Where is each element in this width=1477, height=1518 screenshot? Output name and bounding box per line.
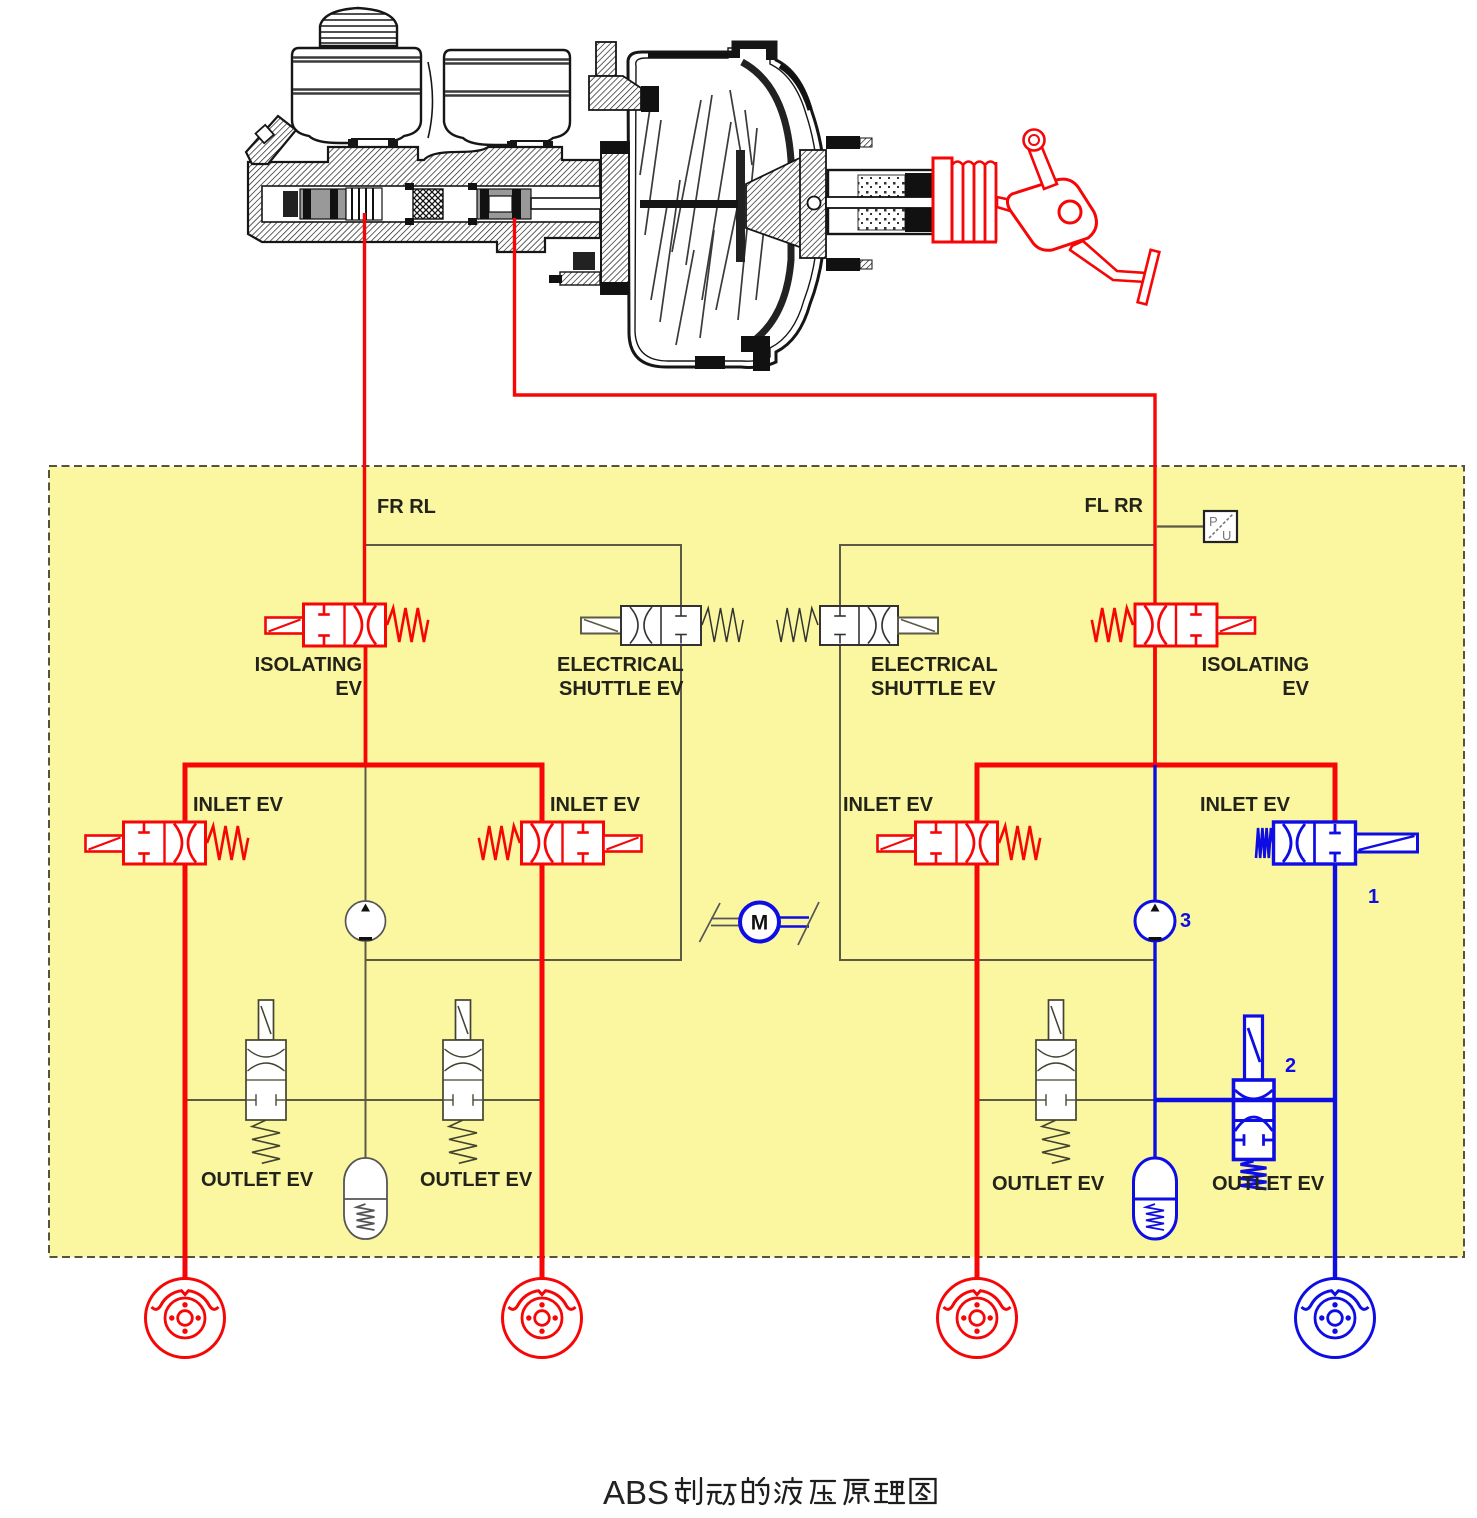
- wheel brake at 1335,1318: [1296, 1279, 1375, 1358]
- valve: OUTLET EV at x=463: [443, 1000, 483, 1163]
- wheel brake at 977,1318: [938, 1279, 1017, 1358]
- pedal foot plate: [1138, 250, 1160, 305]
- valve: ISOLATING EV (right, red): [1092, 604, 1255, 646]
- HCU yellow block background: [49, 467, 1464, 1257]
- wire: left pump branch: [365, 765, 367, 1158]
- lower mounting bolt: [573, 252, 595, 270]
- wire: master cylinder port 1 to FR RL circuit: [363, 213, 366, 604]
- valve: INLET EV at x=542: [479, 822, 642, 864]
- valve: INLET EV (blue, item 1 branch): [1256, 822, 1418, 864]
- check valve fitting: [589, 42, 659, 112]
- wire: left outlet manifold: [185, 1099, 542, 1101]
- wire: right inlet manifold (thick red): [977, 765, 1335, 1278]
- svg-text:SHUTTLE EV: SHUTTLE EV: [559, 678, 684, 700]
- svg-text:2: 2: [1285, 1055, 1296, 1077]
- valve: INLET EV at x=185: [86, 822, 249, 864]
- wire: blue outlet manifold: [1155, 1098, 1335, 1102]
- pedal bellows boot: [933, 158, 997, 242]
- secondary piston: [477, 189, 531, 219]
- wire: FR RL feed through isolating valve to manifold: [364, 646, 368, 765]
- caption glyph: [676, 1478, 701, 1504]
- svg-text:INLET EV: INLET EV: [193, 794, 284, 816]
- master cylinder body (hatched cross-section): [248, 147, 600, 252]
- svg-text:INLET EV: INLET EV: [550, 794, 641, 816]
- caption glyph: [708, 1485, 736, 1504]
- accumulator at x=1155: [1134, 1158, 1177, 1239]
- vacuum booster shell: [628, 42, 826, 367]
- valve: OUTLET EV (blue, item 2): [1234, 1016, 1275, 1189]
- svg-text:INLET EV: INLET EV: [843, 794, 934, 816]
- pedal lower arm: [1070, 241, 1146, 282]
- wire: right shuttle loop: [840, 545, 1155, 606]
- wheel brake at 542,1318: [503, 1279, 582, 1358]
- svg-text:ELECTRICAL: ELECTRICAL: [871, 654, 998, 676]
- accumulator at x=365.5: [344, 1158, 387, 1239]
- svg-text:INLET EV: INLET EV: [1200, 794, 1291, 816]
- wire: right outlet manifold gray part: [977, 1099, 1155, 1101]
- booster bottom flange feet: [741, 336, 770, 371]
- booster internal rods: [640, 90, 766, 345]
- mounting flange arm: [246, 116, 296, 164]
- svg-text:FR RL: FR RL: [377, 496, 436, 518]
- bore left end plug: [283, 191, 298, 217]
- rear housing + output tube: [800, 150, 826, 258]
- svg-text:OUTLET EV: OUTLET EV: [201, 1169, 314, 1191]
- svg-text:ABS: ABS: [603, 1474, 669, 1511]
- svg-text:OUTLET EV: OUTLET EV: [1212, 1173, 1325, 1195]
- wire: blue pump 3 branch: [1153, 765, 1156, 1157]
- reservoir necks and grommets: [348, 139, 553, 155]
- svg-text:ELECTRICAL: ELECTRICAL: [557, 654, 684, 676]
- pump at 365.5,921: [346, 901, 386, 941]
- svg-text:SHUTTLE EV: SHUTTLE EV: [871, 678, 996, 700]
- wire: left inlet manifold (thick red): [185, 765, 542, 1278]
- valve: OUTLET EV at x=266: [246, 1000, 286, 1163]
- svg-text:EV: EV: [335, 678, 362, 700]
- svg-text:FL RR: FL RR: [1084, 495, 1143, 517]
- booster diaphragm band: [742, 62, 791, 346]
- valve: ISOLATING EV (left, red): [266, 604, 429, 646]
- brake fluid reservoirs: [292, 48, 570, 145]
- wire: blue wheel branch: [1333, 864, 1337, 1278]
- svg-text:OUTLET EV: OUTLET EV: [420, 1169, 533, 1191]
- valve: ELECTRICAL SHUTTLE EV (left, gray): [581, 606, 743, 645]
- valve: INLET EV at x=977: [878, 822, 1041, 864]
- caption glyph: [845, 1480, 869, 1504]
- valve: ELECTRICAL SHUTTLE EV (right, gray): [777, 606, 938, 645]
- caption glyph: [811, 1481, 835, 1503]
- svg-text:M: M: [751, 912, 769, 935]
- svg-text:3: 3: [1180, 910, 1191, 932]
- wheel brake at 185,1318: [146, 1279, 225, 1358]
- caption glyph: [875, 1482, 904, 1503]
- pedal pivot block: [1007, 179, 1096, 250]
- svg-text:P: P: [1209, 514, 1218, 529]
- booster top seam elbow (dark): [728, 42, 776, 60]
- pedal pushrod: [997, 197, 1043, 220]
- svg-text:EV: EV: [1282, 678, 1309, 700]
- pump at 1155,921: [1135, 901, 1175, 941]
- booster top rim shading: [648, 53, 728, 58]
- caption glyph: [776, 1478, 802, 1504]
- svg-text:ISOLATING: ISOLATING: [255, 654, 362, 676]
- pushrod in bore: [531, 198, 601, 209]
- pedal upper arm and eye: [1029, 145, 1057, 189]
- master cylinder reservoir cap: [320, 8, 397, 46]
- booster hub: [736, 150, 745, 262]
- svg-text:U: U: [1222, 528, 1231, 543]
- svg-text:OUTLET EV: OUTLET EV: [992, 1173, 1105, 1195]
- booster pushrod (dark): [640, 200, 738, 208]
- HCU dashed border: [49, 466, 1464, 1257]
- caption glyph: [743, 1478, 768, 1504]
- svg-text:1: 1: [1368, 886, 1379, 908]
- wire: master cylinder port 2 to FL RR circuit: [515, 218, 1156, 604]
- wire: left shuttle loop: [366, 545, 682, 606]
- svg-text:ISOLATING: ISOLATING: [1202, 654, 1309, 676]
- firewall studs: [826, 136, 860, 149]
- MC to booster flange: [601, 142, 629, 294]
- valve: OUTLET EV at x=1056: [1036, 1000, 1076, 1163]
- motor M: [700, 902, 820, 945]
- caption glyph: [911, 1479, 936, 1503]
- primary piston: [300, 188, 382, 220]
- pressure transducer P/U: [1157, 511, 1237, 543]
- center seal block: [413, 189, 443, 219]
- cylinder bore: [262, 186, 600, 222]
